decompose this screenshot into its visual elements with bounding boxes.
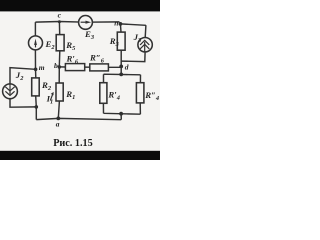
- svg-text:b: b: [54, 61, 58, 70]
- svg-text:Рис. 1.15: Рис. 1.15: [53, 138, 93, 149]
- svg-text:d: d: [125, 63, 129, 72]
- svg-text:a: a: [56, 119, 60, 128]
- svg-text:n: n: [114, 18, 118, 27]
- svg-text:m: m: [39, 63, 45, 72]
